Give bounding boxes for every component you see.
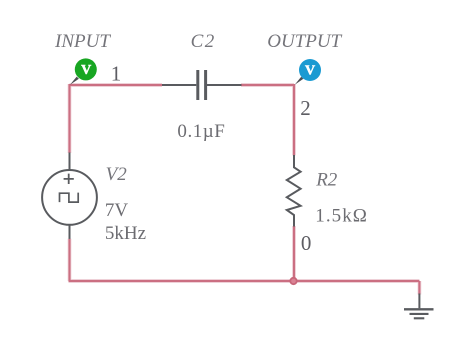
probe INPUT (green) (70, 58, 97, 84)
wire halo (soft edges) (69, 84, 420, 295)
svg-text:2: 2 (300, 96, 311, 120)
wire ground drop (418, 281, 420, 295)
svg-text:0: 0 (301, 231, 312, 255)
probe OUTPUT (blue) (295, 59, 321, 85)
resistor R2 (287, 155, 301, 227)
svg-text:5kHz: 5kHz (105, 223, 146, 244)
wire bottom horizontal (node 0) (69, 280, 420, 282)
wire left vertical upper (node 1) (68, 84, 70, 153)
wire top-left: node 1 horizontal segment (70, 84, 163, 86)
svg-text:OUTPUT: OUTPUT (267, 31, 342, 52)
voltage source V2 (42, 153, 97, 239)
svg-text:0.1µF: 0.1µF (177, 121, 225, 142)
wire right vertical lower (node 0) (293, 226, 295, 281)
svg-text:7V: 7V (105, 200, 128, 221)
svg-text:V: V (81, 63, 91, 78)
wire right vertical upper (node 2) (293, 84, 295, 155)
svg-text:1: 1 (111, 61, 122, 85)
svg-text:V: V (305, 63, 315, 78)
ground (404, 294, 434, 319)
svg-text:C2: C2 (191, 31, 216, 52)
svg-text:R2: R2 (315, 169, 338, 190)
svg-text:1.5kΩ: 1.5kΩ (315, 205, 368, 226)
wire top-right: node 2 horizontal segment (241, 84, 294, 86)
capacitor C2 (162, 70, 242, 100)
svg-text:INPUT: INPUT (54, 31, 111, 52)
junction node 0 dot (290, 278, 296, 284)
wire left vertical lower (node 0) (68, 239, 70, 281)
svg-text:V2: V2 (106, 164, 128, 185)
